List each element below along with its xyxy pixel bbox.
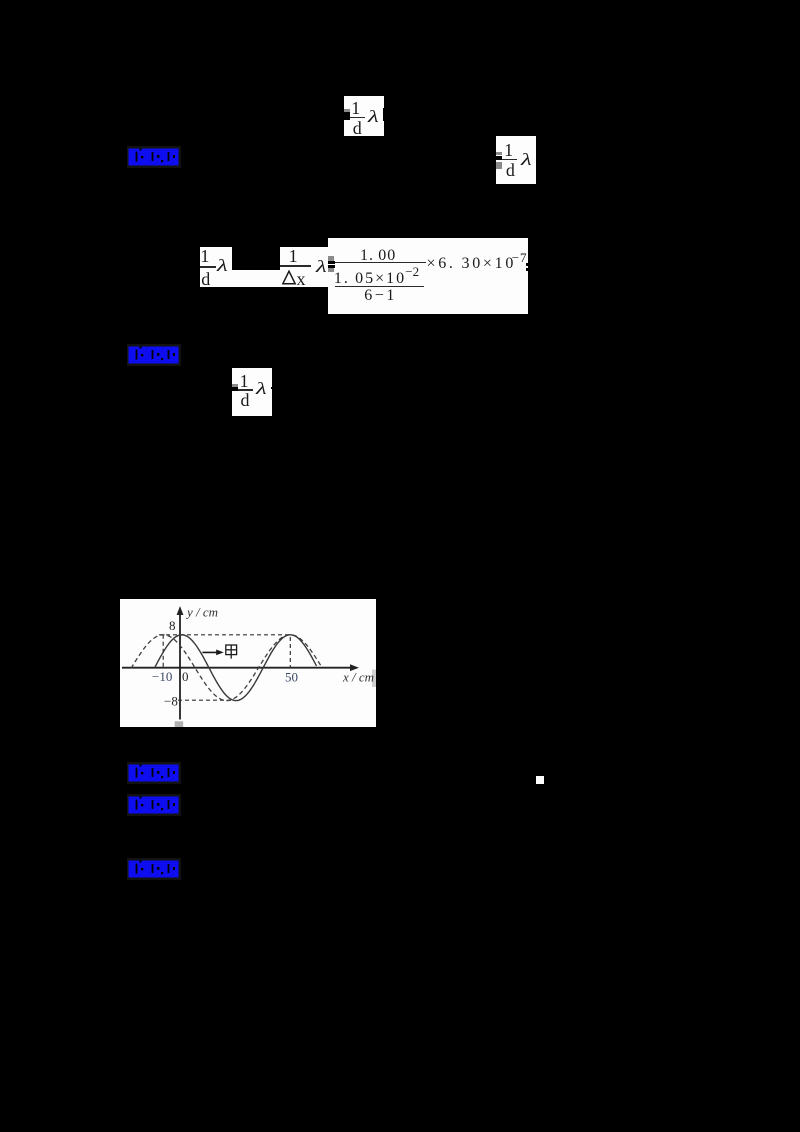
svg-text:x / cm: x / cm [342, 670, 374, 685]
svg-text:0: 0 [182, 669, 189, 684]
svg-text:8: 8 [169, 618, 176, 633]
svg-text:50: 50 [285, 670, 298, 685]
svg-text:−10: −10 [152, 669, 172, 684]
svg-text:y / cm: y / cm [185, 605, 218, 620]
svg-text:−8: −8 [164, 694, 178, 709]
